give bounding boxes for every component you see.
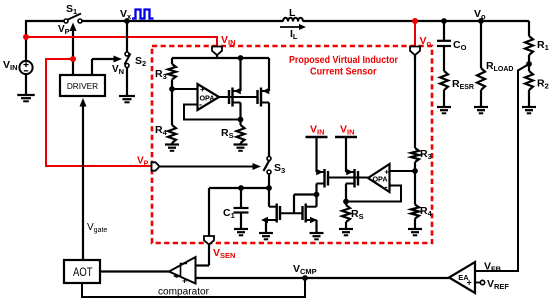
wire P1 drain bbox=[315, 184, 317, 195]
wire P1 P2 gates bbox=[328, 177, 358, 179]
ground under S2 bbox=[119, 95, 135, 97]
node R3b R4b bbox=[412, 168, 418, 174]
wire VSEN to comparator bbox=[208, 245, 210, 266]
wire Vo to R3b bbox=[414, 56, 416, 148]
svg-text:RS: RS bbox=[351, 208, 364, 221]
svg-text:VP: VP bbox=[58, 24, 70, 36]
node Co top bbox=[441, 18, 447, 24]
wire M1 drain bbox=[239, 58, 241, 91]
wire OPA1 feedback bbox=[184, 105, 241, 120]
svg-text:CO: CO bbox=[453, 39, 467, 52]
svg-text:VIN: VIN bbox=[221, 34, 236, 47]
wire comparator plus input bbox=[196, 277, 305, 279]
svg-text:IL: IL bbox=[290, 28, 298, 41]
svg-text:R3: R3 bbox=[420, 148, 432, 161]
svg-text:+: + bbox=[182, 276, 187, 286]
port Vo entry bbox=[410, 47, 420, 56]
node VCMP bbox=[302, 275, 308, 281]
node P2 drain RS bbox=[343, 199, 349, 205]
ground under RESR bbox=[437, 106, 451, 108]
resistor R4 left bbox=[171, 89, 173, 125]
wire S3 to sense node bbox=[268, 174, 270, 188]
wire EA output bbox=[305, 277, 449, 279]
resistor R1 bbox=[525, 36, 533, 55]
wire Vx to S2 bbox=[126, 21, 128, 52]
svg-text:R1: R1 bbox=[537, 39, 549, 52]
wire M2 source to S3 bbox=[268, 103, 270, 157]
transistor P1 bbox=[327, 171, 329, 186]
svg-text:VIN: VIN bbox=[3, 59, 18, 72]
supply rail1 bbox=[306, 136, 328, 138]
ground under R4 right bbox=[408, 228, 422, 230]
port VIN entry bbox=[212, 47, 222, 56]
svg-text:+: + bbox=[467, 278, 472, 288]
wire P2 drain bbox=[345, 184, 347, 202]
wire to R1 bbox=[528, 21, 530, 36]
wire OPA2 plus input bbox=[390, 170, 416, 172]
supply rail2 bbox=[335, 136, 357, 138]
ground under RS left bbox=[234, 143, 248, 145]
wire Vin source bottom bbox=[25, 74, 27, 95]
ground under M3 bbox=[259, 232, 273, 234]
svg-text:R3: R3 bbox=[155, 68, 167, 81]
wire red Vo sense bbox=[414, 21, 416, 46]
wire VCMP to AOT bbox=[82, 278, 305, 297]
svg-text:R4: R4 bbox=[155, 124, 168, 137]
svg-text:DRIVER: DRIVER bbox=[67, 81, 98, 91]
node M1 source RS bbox=[238, 117, 244, 123]
svg-text:VFB: VFB bbox=[484, 261, 502, 274]
wire OPA1 to gates bbox=[219, 96, 258, 98]
op-amp OPA1 bbox=[198, 84, 220, 110]
wire VSEN exit bbox=[208, 188, 210, 237]
transistor M3 bbox=[279, 206, 281, 220]
node R1 R2 bbox=[526, 61, 532, 67]
node sense S3 bbox=[266, 185, 272, 191]
transistor M4 bbox=[301, 206, 303, 220]
resistor RLOAD bbox=[480, 21, 482, 68]
wire M2 drain to rail bbox=[268, 58, 270, 91]
arrow IL bbox=[280, 26, 300, 28]
wire gate riser bbox=[293, 195, 295, 214]
node Vx bbox=[124, 18, 130, 24]
transistor M1 bbox=[228, 90, 230, 104]
switch S2 bbox=[125, 52, 129, 56]
wire OPA1 plus input bbox=[172, 88, 198, 90]
wire VP to S3 bbox=[160, 166, 253, 168]
svg-text:comparator: comparator bbox=[158, 287, 210, 298]
svg-text:VN: VN bbox=[112, 64, 124, 76]
svg-text:RS: RS bbox=[221, 127, 234, 140]
source VIN bbox=[19, 61, 32, 74]
switch S1 bbox=[64, 19, 68, 23]
node Vo red tap bbox=[412, 18, 418, 24]
wire OPA2 output to gate bbox=[358, 177, 368, 179]
error amplifier EA bbox=[449, 262, 475, 293]
node Vo bbox=[478, 18, 484, 24]
wire Vin source top bbox=[25, 20, 27, 61]
switch S3 bbox=[267, 157, 271, 161]
node R3 R4 junction bbox=[169, 86, 175, 92]
wire VREF input bbox=[475, 282, 480, 284]
port VSEN bbox=[204, 236, 214, 245]
wire S2 to ground bbox=[126, 68, 128, 97]
transistor P2 bbox=[357, 171, 359, 186]
wire top rail inductor to right bbox=[303, 20, 529, 22]
capacitor C1 bbox=[240, 188, 242, 208]
svg-text:S2: S2 bbox=[135, 55, 146, 68]
wire M3 drain bbox=[268, 188, 270, 207]
comparator bbox=[169, 257, 196, 284]
wire OPA2 feedback bbox=[346, 186, 401, 202]
ground under VIN bbox=[17, 94, 35, 96]
ground under R4 left bbox=[165, 143, 179, 145]
svg-text:Vx: Vx bbox=[120, 8, 132, 21]
transistor M2 bbox=[256, 90, 258, 104]
svg-text:C1: C1 bbox=[223, 207, 235, 220]
ground under RS right bbox=[339, 228, 353, 230]
wire inner rail bbox=[172, 57, 269, 59]
svg-text:S3: S3 bbox=[274, 162, 285, 175]
svg-text:RESR: RESR bbox=[452, 78, 474, 91]
resistor RESR bbox=[440, 71, 448, 90]
wire driver to S2 arrow bbox=[91, 59, 93, 75]
svg-text:OPA: OPA bbox=[199, 94, 214, 103]
svg-text:R2: R2 bbox=[537, 78, 549, 91]
svg-text:VIN: VIN bbox=[310, 124, 325, 137]
wire M4 drain bbox=[315, 195, 317, 207]
svg-text:-: - bbox=[385, 182, 388, 192]
svg-text:VCMP: VCMP bbox=[293, 263, 317, 276]
resistor R3 right bbox=[411, 148, 419, 162]
node P1 M4 drain bbox=[314, 192, 320, 198]
capacitor CO bbox=[443, 21, 445, 40]
wire top rail left (Vin to S1) bbox=[26, 20, 64, 22]
svg-text:OPA: OPA bbox=[372, 175, 387, 184]
svg-text:VREF: VREF bbox=[487, 278, 509, 291]
dashed box sensor bbox=[152, 46, 432, 243]
resistor RS right bbox=[345, 202, 347, 206]
wire sense node rail bbox=[209, 187, 269, 189]
wire M1 source bbox=[239, 103, 241, 120]
ground under C1 bbox=[234, 228, 248, 230]
ground under RLOAD bbox=[474, 106, 488, 108]
node M1 drain rail bbox=[238, 55, 244, 61]
svg-text:Vo: Vo bbox=[474, 8, 486, 21]
svg-text:VP: VP bbox=[137, 156, 149, 168]
port VP entry bbox=[152, 162, 160, 170]
svg-text:Current Sensor: Current Sensor bbox=[310, 67, 377, 78]
wire driver to S1 arrow bbox=[72, 28, 74, 75]
ground under M4 bbox=[310, 232, 324, 234]
svg-text:Proposed Virtual Inductor: Proposed Virtual Inductor bbox=[289, 55, 398, 66]
op-amp OPA2 bbox=[368, 164, 390, 192]
resistor R3 left bbox=[171, 58, 173, 64]
wire top rail S1 to inductor bbox=[82, 20, 283, 22]
inductor L bbox=[283, 18, 303, 22]
wire VFB bbox=[475, 64, 529, 271]
svg-text:RLOAD: RLOAD bbox=[486, 60, 513, 73]
resistor R2 bbox=[528, 64, 530, 71]
resistor R4 right bbox=[414, 171, 416, 205]
wire red VP sense bbox=[45, 58, 73, 60]
ground under R2 bbox=[522, 106, 536, 108]
wire AOT to comparator bbox=[100, 270, 169, 272]
node Vin tap (red) bbox=[23, 34, 29, 40]
svg-text:S1: S1 bbox=[66, 3, 77, 16]
node sense C1 bbox=[238, 185, 244, 191]
svg-text:L: L bbox=[289, 7, 296, 19]
wire Vgate bbox=[82, 105, 84, 260]
svg-text:VIN: VIN bbox=[340, 124, 355, 137]
block AOT bbox=[64, 260, 100, 283]
resistor RS left bbox=[239, 120, 241, 126]
wire red VIN sense bbox=[26, 36, 218, 38]
svg-text:AOT: AOT bbox=[73, 265, 93, 279]
waveform Vx (blue) bbox=[132, 10, 154, 19]
block DRIVER bbox=[60, 75, 105, 96]
node VP tap (red) bbox=[70, 56, 76, 62]
svg-text:VSEN: VSEN bbox=[213, 247, 235, 260]
wire M3 M4 gates bbox=[280, 212, 303, 214]
svg-text:Vgate: Vgate bbox=[87, 222, 107, 234]
